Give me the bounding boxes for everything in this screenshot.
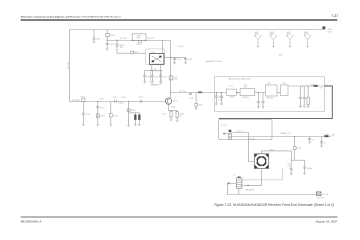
svg-text:100pF: 100pF	[118, 103, 124, 105]
capacitor C501 with ground	[93, 30, 101, 43]
svg-text:51: 51	[180, 116, 182, 118]
svg-text:L509: L509	[310, 84, 314, 86]
wire filter2 to filter3	[255, 92, 266, 94]
antenna switch shield box	[214, 77, 324, 112]
filter FL1 box	[226, 86, 236, 98]
svg-text:SW123: SW123	[242, 97, 248, 99]
wire switch output	[288, 85, 324, 87]
inductor L504 series on main line	[80, 96, 85, 101]
capacitor C527 shunt with ground	[308, 137, 314, 144]
wire collector output run	[171, 92, 227, 94]
filter F501 box	[151, 71, 162, 87]
svg-text:L505: L505	[99, 98, 103, 100]
svg-text:C507: C507	[176, 59, 181, 61]
svg-text:FL501: FL501	[152, 85, 157, 87]
capacitor C526 shunt with ground	[303, 86, 306, 108]
svg-text:MAGNETIC: MAGNETIC	[246, 189, 256, 192]
arrow into W501	[223, 133, 228, 135]
svg-text:5R_RX: 5R_RX	[178, 46, 185, 48]
circulator E501	[254, 154, 268, 169]
wire circulator port2	[262, 151, 292, 160]
inductor L510 series dark	[324, 134, 334, 137]
svg-text:Q501: Q501	[173, 100, 178, 102]
arrow to TX sense	[227, 182, 236, 184]
svg-text:C529: C529	[297, 148, 301, 150]
svg-text:Rx_B2: Rx_B2	[249, 138, 255, 140]
wire W501 to circulator	[232, 133, 255, 162]
svg-text:U501: U501	[151, 52, 156, 54]
svg-text:7-37: 7-37	[331, 14, 338, 18]
capacitor C525 shunt with ground	[299, 86, 302, 108]
antenna TP4	[304, 32, 312, 48]
svg-text:SW: SW	[137, 38, 140, 40]
svg-text:C9: C9	[320, 88, 322, 90]
footer rule	[21, 216, 338, 217]
svg-text:C511: C511	[154, 77, 158, 79]
resistor R506 with ground	[176, 111, 184, 122]
svg-text:NU 2: NU 2	[328, 31, 332, 33]
wire drop to mixer	[161, 40, 163, 53]
resistor R507 shunt with ground	[195, 93, 203, 110]
svg-text:=: =	[305, 98, 306, 100]
svg-text:R510: R510	[270, 150, 275, 152]
capacitor C505 series	[131, 51, 146, 54]
mixer U501	[149, 52, 164, 64]
antenna TP2	[270, 32, 278, 48]
isolator load Z501	[233, 174, 242, 188]
inductor L507 with ground	[162, 111, 173, 121]
svg-text:6816953H01-A: 6816953H01-A	[21, 219, 43, 223]
diode D502 branch	[127, 101, 135, 127]
svg-text:August 24, 2007: August 24, 2007	[316, 219, 338, 223]
svg-text:Schematics, Component Location: Schematics, Component Location Diagrams,…	[21, 15, 122, 18]
wire emitter network	[168, 104, 177, 111]
svg-text:C512: C512	[162, 77, 167, 79]
capacitor C529 series	[293, 146, 301, 160]
inductor L509 series dark	[310, 84, 328, 89]
transistor Q501	[165, 98, 177, 105]
wire RX input run	[107, 40, 170, 42]
svg-text:3111TxP: 3111TxP	[317, 197, 325, 199]
wire branch to detector	[294, 137, 296, 147]
svg-text:RX_IN2: RX_IN2	[147, 38, 154, 40]
svg-text:C502: C502	[109, 44, 114, 46]
svg-text:L506: L506	[122, 97, 126, 99]
svg-text:B40: B40	[279, 55, 282, 57]
svg-text:FL1: FL1	[229, 86, 232, 88]
arrow on port3 wire	[248, 184, 250, 186]
capacitor C511 with ground	[151, 71, 159, 84]
svg-text:L507: L507	[162, 114, 166, 116]
svg-text:C508: C508	[187, 59, 192, 61]
capacitor C519 series on main line	[138, 96, 143, 103]
coax filter W501	[228, 130, 231, 140]
svg-text:C516: C516	[113, 115, 118, 117]
svg-text:RX_ANT: RX_ANT	[72, 99, 80, 102]
capacitor C516 shunt with ground	[109, 101, 117, 126]
svg-text:Figure 7-25. HUD4025A/HUD4022: Figure 7-25. HUD4025A/HUD4022B Receiver …	[214, 203, 334, 207]
diode CR501 pair with grounds	[129, 113, 141, 126]
capacitor C512 with ground	[159, 71, 167, 84]
wire collector riser	[170, 41, 172, 98]
connector P1 top right	[322, 26, 332, 33]
svg-text:C519: C519	[138, 96, 143, 98]
svg-text:C7: C7	[323, 143, 325, 145]
svg-text:R504: R504	[137, 44, 141, 46]
capacitor C530 with ground	[288, 160, 293, 175]
relay K501 box	[132, 34, 147, 41]
wire filter row bus	[145, 70, 163, 72]
wire mixer bottom drops	[152, 64, 161, 70]
svg-text:C8: C8	[311, 139, 313, 141]
svg-text:330: 330	[120, 47, 123, 49]
wire main RX line	[70, 101, 166, 103]
svg-text:Ant Switches (Main TX): Ant Switches (Main TX)	[229, 78, 251, 81]
mixer shield box (outer)	[146, 49, 165, 65]
svg-text:C501: C501	[96, 38, 101, 40]
inductor L501 on drop	[106, 30, 115, 41]
capacitor C502 with ground	[106, 40, 114, 50]
svg-text:C520: C520	[189, 98, 193, 100]
wire circulator port3 down	[242, 169, 262, 186]
wire between filters	[236, 92, 240, 94]
svg-text:R505: R505	[171, 106, 176, 108]
svg-text:U3201: U3201	[229, 96, 235, 98]
wire load top run	[242, 169, 283, 180]
capacitor C510 with ground	[143, 71, 151, 84]
wire detector tee	[291, 159, 304, 161]
svg-text:C10: C10	[288, 166, 291, 168]
svg-text:C517: C517	[113, 97, 118, 99]
svg-text:RX_FIL: RX_FIL	[179, 91, 185, 93]
svg-text:J1 TxP: J1 TxP	[322, 194, 329, 196]
wire load bottom drop	[238, 189, 240, 195]
svg-text:C510: C510	[147, 77, 152, 79]
svg-text:RX_FE: RX_FE	[68, 61, 70, 69]
svg-text:L630: L630	[330, 134, 334, 136]
svg-text:T1: T1	[233, 174, 235, 176]
capacitor C514 shunt with ground	[82, 101, 90, 126]
svg-text:C514: C514	[85, 114, 90, 116]
svg-text:RXBK_OUT: RXBK_OUT	[281, 133, 292, 135]
inductor L511 series dark	[198, 91, 202, 93]
capacitor C528 shunt with ground	[320, 137, 326, 148]
capacitor C531 with ground	[303, 160, 313, 174]
svg-text:SW124: SW124	[267, 97, 273, 99]
wire mixer output	[164, 56, 186, 58]
antenna TP3	[286, 32, 294, 48]
varactor D501 stack with ground	[96, 98, 104, 126]
wire left vertical feed	[69, 30, 71, 102]
resistor R502 branch	[116, 40, 131, 54]
capacitor C508 with ground	[184, 57, 192, 64]
header rule	[21, 19, 338, 20]
svg-text:L504: L504	[80, 96, 84, 98]
svg-text:C515: C515	[100, 107, 105, 109]
svg-text:D501: D501	[100, 116, 105, 118]
connector J501	[317, 192, 329, 200]
inductor L508 shunt with ground	[305, 86, 309, 108]
capacitor C523 shunt with ground	[257, 92, 260, 108]
svg-text:L630: L630	[324, 85, 328, 87]
filter FL2 box	[240, 84, 255, 99]
capacitor C521 shunt with ground	[215, 92, 224, 105]
capacitor C522 shunt with ground	[220, 92, 223, 105]
svg-text:TX_IN: TX_IN	[221, 125, 227, 127]
svg-text:Band2 RX Tx Po: Band2 RX Tx Po	[206, 61, 222, 63]
svg-text:R503: R503	[131, 110, 136, 112]
wire bottom TX run	[227, 184, 316, 195]
svg-text:RX_IN1: RX_IN1	[120, 38, 127, 40]
capacitor C524 shunt with ground	[262, 93, 265, 109]
wire top bus	[70, 29, 324, 31]
svg-text:L501: L501	[111, 35, 115, 37]
svg-text:U34: U34	[283, 83, 286, 85]
svg-text:100n: 100n	[173, 79, 177, 81]
wire switch output loop to TX path	[219, 86, 333, 119]
capacitor C507 with ground	[173, 57, 181, 64]
capacitor C520 shunt	[189, 93, 193, 100]
svg-text:RX_O1: RX_O1	[237, 131, 243, 133]
svg-text:U33: U33	[267, 83, 270, 85]
wire RXBK run	[232, 136, 332, 138]
svg-text:406: 406	[244, 87, 247, 89]
capacitor C517 series on main line	[113, 97, 126, 104]
filter FL3 box	[265, 83, 277, 99]
filter FL4 box	[280, 83, 288, 95]
wire filter3 to filter4	[277, 92, 280, 94]
svg-text:R507: R507	[198, 105, 202, 107]
TX injection box	[219, 119, 272, 139]
svg-text:1000pF: 1000pF	[307, 168, 314, 170]
inductor L503 on riser	[169, 76, 177, 81]
relay coil R504 below K501	[137, 41, 142, 46]
antenna TP1	[254, 32, 262, 48]
